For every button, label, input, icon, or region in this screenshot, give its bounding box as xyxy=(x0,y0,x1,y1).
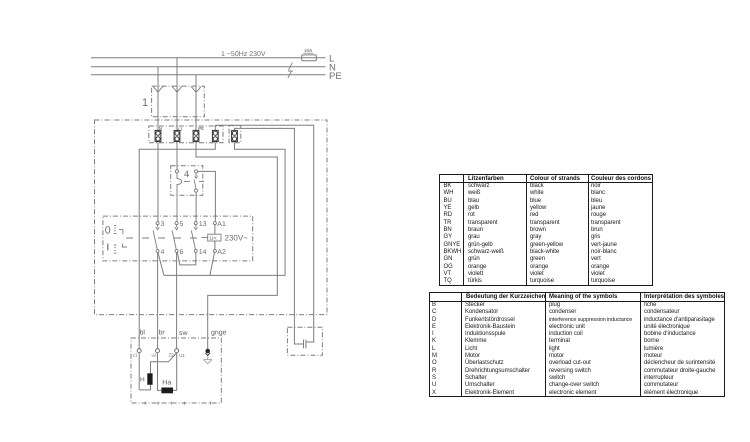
svg-text:u2: u2 xyxy=(152,352,158,357)
terminal T5 xyxy=(232,130,238,141)
coil terminals A1 A2 xyxy=(213,222,216,225)
plug connector box 1 xyxy=(152,86,205,117)
svg-text:13: 13 xyxy=(199,221,207,228)
svg-text:230V~: 230V~ xyxy=(225,234,249,243)
wire T5 bottom to coil A2 riser xyxy=(235,143,286,276)
coil U< undervoltage release xyxy=(214,225,216,250)
svg-text:L1: L1 xyxy=(178,126,183,131)
switch S terminal bottom-right xyxy=(195,189,198,192)
latch dots lower xyxy=(114,245,117,253)
plug contact pin 2 xyxy=(172,87,182,93)
svg-text:PE: PE xyxy=(329,71,342,82)
terminal T1 xyxy=(155,130,161,141)
switch jaw contact xyxy=(177,173,182,222)
contactor box K1 xyxy=(103,216,253,261)
earth symbol xyxy=(203,357,212,364)
wire sw diagonal to winding H xyxy=(151,353,177,373)
terminal T3 xyxy=(193,130,199,141)
svg-text:4: 4 xyxy=(161,249,165,256)
slash mark on PE xyxy=(288,71,293,78)
svg-text:A2: A2 xyxy=(217,249,226,256)
switch mech dashed link xyxy=(184,181,204,183)
wire contact 4 diagonal to A2 bus xyxy=(158,252,164,275)
wire br down to winding Ha xyxy=(158,353,162,391)
svg-text:4: 4 xyxy=(184,169,189,179)
slash mark on N xyxy=(289,63,293,70)
motor terminal bl Z1 xyxy=(137,349,141,353)
latch dots upper xyxy=(114,225,117,233)
terminal box T5 xyxy=(229,126,241,143)
motor terminal sw U1/Z2 xyxy=(175,349,179,353)
svg-text:z1: z1 xyxy=(133,352,138,357)
bracket upper xyxy=(119,230,123,235)
svg-text:1: 1 xyxy=(142,97,148,109)
wire T4 top to capacitor right xyxy=(215,125,313,342)
svg-text:Ha: Ha xyxy=(162,380,171,387)
switch S terminal top-left xyxy=(175,170,178,173)
power rail PE xyxy=(91,74,326,76)
mechanism dashed line xyxy=(126,237,204,239)
wire contact 6 down to motor sw xyxy=(176,252,178,348)
svg-text:U1: U1 xyxy=(179,353,185,358)
terminal T2 xyxy=(174,130,180,141)
wire PE: T3 right and down to motor earth xyxy=(196,143,277,350)
svg-text:H: H xyxy=(140,377,145,384)
wire T4 bottom to motor bl xyxy=(139,143,215,349)
capacitor C plates xyxy=(304,340,306,349)
wire Ha right to sw xyxy=(173,353,177,391)
plug contact pin 1 xyxy=(153,87,163,93)
svg-text:U<: U< xyxy=(210,236,217,242)
wire A2 diagonal to bus xyxy=(210,252,215,275)
svg-text:bl: bl xyxy=(140,329,146,337)
wire box4 bottom-right to contact 13 xyxy=(195,192,197,221)
outer enclosure box xyxy=(95,120,328,315)
terminal T4 xyxy=(212,130,218,141)
motor box M1 xyxy=(131,338,221,403)
motor box bottom tick marks xyxy=(145,402,210,405)
svg-text:3: 3 xyxy=(161,221,165,228)
winding Ha xyxy=(161,388,173,394)
svg-text:6: 6 xyxy=(180,249,184,256)
wire PE tap to terminal T3 xyxy=(195,75,197,131)
contact 3/4 xyxy=(153,222,159,253)
wire L tap to terminal T2 xyxy=(176,58,178,131)
svg-text:1 ~50Hz 230V: 1 ~50Hz 230V xyxy=(221,51,266,58)
switch box 4 xyxy=(171,166,203,196)
capacitor box xyxy=(287,327,322,355)
wire H bottom to bl xyxy=(139,353,150,390)
wire T1 to contact 3 xyxy=(157,143,159,222)
colour table xyxy=(439,174,653,286)
jumper contact 6 to 14 xyxy=(177,252,195,265)
svg-text:0: 0 xyxy=(105,225,111,237)
power rail N xyxy=(91,66,326,68)
contact 5/6 xyxy=(172,222,178,253)
plug contact pin 3 xyxy=(191,87,201,93)
svg-text:PE: PE xyxy=(198,126,204,131)
wire N tap to terminal T1 xyxy=(157,67,159,131)
motor terminal gnge earth xyxy=(206,349,210,353)
wire T5 top to capacitor left xyxy=(235,128,304,344)
svg-text:sw: sw xyxy=(179,330,189,337)
svg-text:N: N xyxy=(159,126,162,131)
A2 bus horizontal xyxy=(164,274,285,276)
svg-text:A1: A1 xyxy=(217,221,226,228)
motor terminal br U2 xyxy=(156,349,160,353)
winding H xyxy=(147,373,152,385)
symbol meaning table xyxy=(429,292,725,397)
svg-text:gnge: gnge xyxy=(211,330,227,337)
bracket lower xyxy=(122,244,127,247)
svg-text:br: br xyxy=(159,329,166,337)
switch blade and arrow xyxy=(194,173,197,189)
contact 13/14 xyxy=(191,222,197,253)
terminal strip box T1-T4 xyxy=(149,126,223,143)
wire T2 to switch box 4 xyxy=(176,143,178,170)
fuse F1 16A xyxy=(302,55,317,61)
wire contact 4 down to motor br xyxy=(157,252,159,348)
svg-text:16A: 16A xyxy=(304,48,313,53)
power rail L xyxy=(91,57,326,59)
svg-text:14: 14 xyxy=(199,249,207,256)
wire box4 top-right to coil A1 xyxy=(198,171,216,221)
label I xyxy=(107,244,109,251)
switch S terminal top-right xyxy=(195,170,198,173)
svg-text:5: 5 xyxy=(180,221,184,228)
